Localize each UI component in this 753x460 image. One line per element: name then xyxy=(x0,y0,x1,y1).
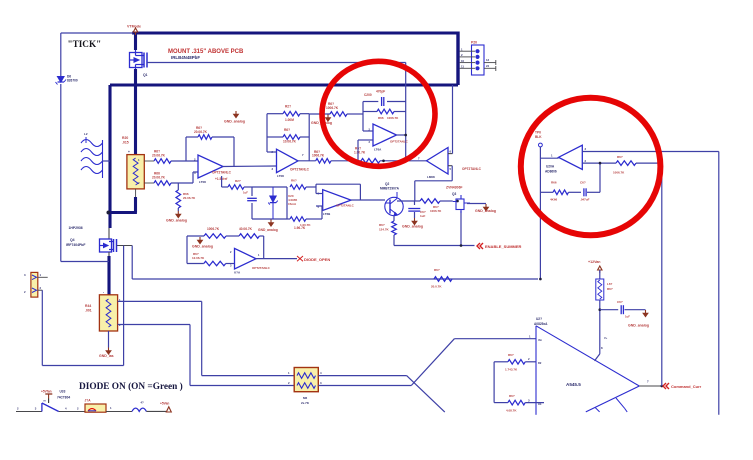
svg-text:R66: R66 xyxy=(551,181,557,185)
svg-text:ZVN4306F: ZVN4306F xyxy=(446,186,462,190)
svg-text:R6?: R6? xyxy=(379,223,385,227)
svg-text:1006.7K: 1006.7K xyxy=(430,209,442,213)
svg-text:M6: M6 xyxy=(303,396,307,400)
svg-text:74CT804: 74CT804 xyxy=(57,395,70,399)
svg-text:R2?: R2? xyxy=(235,179,241,183)
svg-text:1HP2936: 1HP2936 xyxy=(69,226,83,230)
svg-text:A545.5: A545.5 xyxy=(566,382,581,387)
svg-text:OPT2TANLC: OPT2TANLC xyxy=(390,140,409,144)
svg-text:R6?: R6? xyxy=(291,179,297,183)
svg-text:GND_las: GND_las xyxy=(99,354,114,358)
svg-text:OPT2TANLC: OPT2TANLC xyxy=(462,167,482,171)
svg-text:10: 10 xyxy=(461,59,465,63)
svg-text:+: + xyxy=(128,150,130,154)
svg-text:20.06.7K: 20.06.7K xyxy=(183,196,196,200)
svg-text:GND_analog: GND_analog xyxy=(258,228,278,232)
svg-text:R6?: R6? xyxy=(607,287,613,291)
svg-text:VTMode: VTMode xyxy=(127,25,141,29)
svg-text:GND_analog: GND_analog xyxy=(628,324,649,328)
svg-text:C6?: C6? xyxy=(580,181,586,185)
svg-text:J?A: J?A xyxy=(85,399,92,403)
svg-text:LT6A: LT6A xyxy=(374,148,382,152)
svg-text:4?: 4? xyxy=(141,401,145,405)
svg-text:U20A: U20A xyxy=(546,165,555,169)
svg-text:GND_analog: GND_analog xyxy=(224,120,245,124)
svg-text:R20: R20 xyxy=(122,136,128,140)
svg-text:C200: C200 xyxy=(364,93,372,97)
svg-text:R66: R66 xyxy=(378,116,384,120)
svg-text:P20: P20 xyxy=(471,41,477,45)
svg-text:LM08: LM08 xyxy=(427,175,435,179)
svg-text:Q1: Q1 xyxy=(143,73,148,77)
svg-text:R2: R2 xyxy=(538,361,542,365)
svg-text:GND_analog: GND_analog xyxy=(475,209,496,213)
svg-text:U2?: U2? xyxy=(536,317,542,321)
svg-text:GND_analog: GND_analog xyxy=(402,225,423,229)
svg-text:1006.7K: 1006.7K xyxy=(387,116,399,120)
svg-text:GND_analog: GND_analog xyxy=(166,219,187,223)
svg-text:1006.7K: 1006.7K xyxy=(613,171,625,175)
svg-text:R6?: R6? xyxy=(508,353,514,357)
svg-text:OPT2TANLC: OPT2TANLC xyxy=(212,171,232,175)
svg-text:R2?: R2? xyxy=(285,105,291,109)
svg-text:V+: V+ xyxy=(604,336,608,340)
svg-text:L2: L2 xyxy=(84,132,88,136)
svg-text:Q2: Q2 xyxy=(385,182,389,186)
svg-text:"TICK": "TICK" xyxy=(68,39,102,49)
svg-text:10.06.7K: 10.06.7K xyxy=(283,140,297,144)
svg-text:DIODE ON (ON =Green ): DIODE ON (ON =Green ) xyxy=(79,381,183,392)
svg-text:20.06.7K: 20.06.7K xyxy=(152,176,166,180)
svg-text:470pF: 470pF xyxy=(376,90,385,94)
svg-text:R6?: R6? xyxy=(617,155,623,159)
svg-text:.001: .001 xyxy=(85,309,92,313)
svg-text:+5Van: +5Van xyxy=(160,402,169,406)
svg-text:LT6B: LT6B xyxy=(323,212,331,216)
svg-text:IRF7404PbF: IRF7404PbF xyxy=(66,243,85,247)
svg-text:24: 24 xyxy=(486,64,490,68)
svg-text:Q4: Q4 xyxy=(70,238,75,242)
svg-text:15mA: 15mA xyxy=(288,202,297,206)
svg-text:C6?: C6? xyxy=(617,300,623,304)
svg-text:+12Van: +12Van xyxy=(588,260,601,264)
svg-text:1.96.7K: 1.96.7K xyxy=(294,226,306,230)
svg-text:L6?: L6? xyxy=(607,282,613,286)
svg-text:Command_Curr: Command_Curr xyxy=(671,384,702,389)
svg-text:R6?: R6? xyxy=(284,128,290,132)
svg-text:MMBT2907A: MMBT2907A xyxy=(380,187,400,191)
svg-text:124.7K: 124.7K xyxy=(379,228,390,232)
svg-text:12.06.7K: 12.06.7K xyxy=(192,256,205,260)
svg-text:R6?: R6? xyxy=(434,268,440,272)
svg-text:A0825xA: A0825xA xyxy=(534,322,548,326)
svg-text:13: 13 xyxy=(486,58,490,62)
svg-text:1uF: 1uF xyxy=(625,315,630,319)
svg-text:ENABLE_SUMMER: ENABLE_SUMMER xyxy=(485,244,522,249)
svg-text:TP6: TP6 xyxy=(535,131,541,135)
svg-text:1.00.7K: 1.00.7K xyxy=(354,150,366,154)
svg-text:OPT2TANLC: OPT2TANLC xyxy=(252,266,271,270)
svg-text:4K66: 4K66 xyxy=(550,198,558,202)
svg-text:R6?: R6? xyxy=(509,394,515,398)
svg-text:20.06.7K: 20.06.7K xyxy=(152,154,166,158)
svg-text:1.00M: 1.00M xyxy=(285,118,294,122)
svg-text:20.0.7K: 20.0.7K xyxy=(431,285,442,289)
svg-text:2x.7K: 2x.7K xyxy=(301,401,310,405)
svg-text:OPT2TANLC: OPT2TANLC xyxy=(336,204,355,208)
svg-text:1uF: 1uF xyxy=(420,214,426,218)
svg-text:1.743.7K: 1.743.7K xyxy=(505,368,518,372)
svg-text:LT08: LT08 xyxy=(277,174,284,178)
svg-text:1006.7K: 1006.7K xyxy=(312,154,325,158)
svg-text:BLK: BLK xyxy=(535,135,542,139)
svg-text:826700: 826700 xyxy=(67,79,78,83)
svg-text:Vin: Vin xyxy=(538,338,542,342)
svg-text:AD8606: AD8606 xyxy=(545,170,557,174)
svg-text:DIODE_OPEN: DIODE_OPEN xyxy=(304,257,330,262)
svg-text:U?A: U?A xyxy=(234,271,241,275)
svg-text:.015: .015 xyxy=(122,141,129,145)
svg-text:LT08: LT08 xyxy=(199,180,206,184)
svg-text:1006.7K: 1006.7K xyxy=(326,106,339,110)
svg-text:IRLB4N48PbF: IRLB4N48PbF xyxy=(171,55,200,60)
svg-text:20.06.7K: 20.06.7K xyxy=(194,130,208,134)
svg-text:Q3: Q3 xyxy=(452,192,456,196)
svg-text:R44: R44 xyxy=(85,304,91,308)
svg-text:1006.7K: 1006.7K xyxy=(207,227,220,231)
svg-text:40.06.7K: 40.06.7K xyxy=(239,227,253,231)
svg-text:+5Vfan: +5Vfan xyxy=(41,390,52,394)
svg-text:1uF: 1uF xyxy=(243,191,248,195)
svg-text:OPT2TANLC: OPT2TANLC xyxy=(290,168,310,172)
svg-text:GND_analog: GND_analog xyxy=(192,245,213,249)
svg-text:11: 11 xyxy=(461,65,464,69)
svg-text:U33: U33 xyxy=(60,390,66,394)
svg-text:.047uF: .047uF xyxy=(580,198,590,202)
svg-text:-: - xyxy=(103,291,104,295)
svg-text:4.08.7K: 4.08.7K xyxy=(506,409,517,413)
